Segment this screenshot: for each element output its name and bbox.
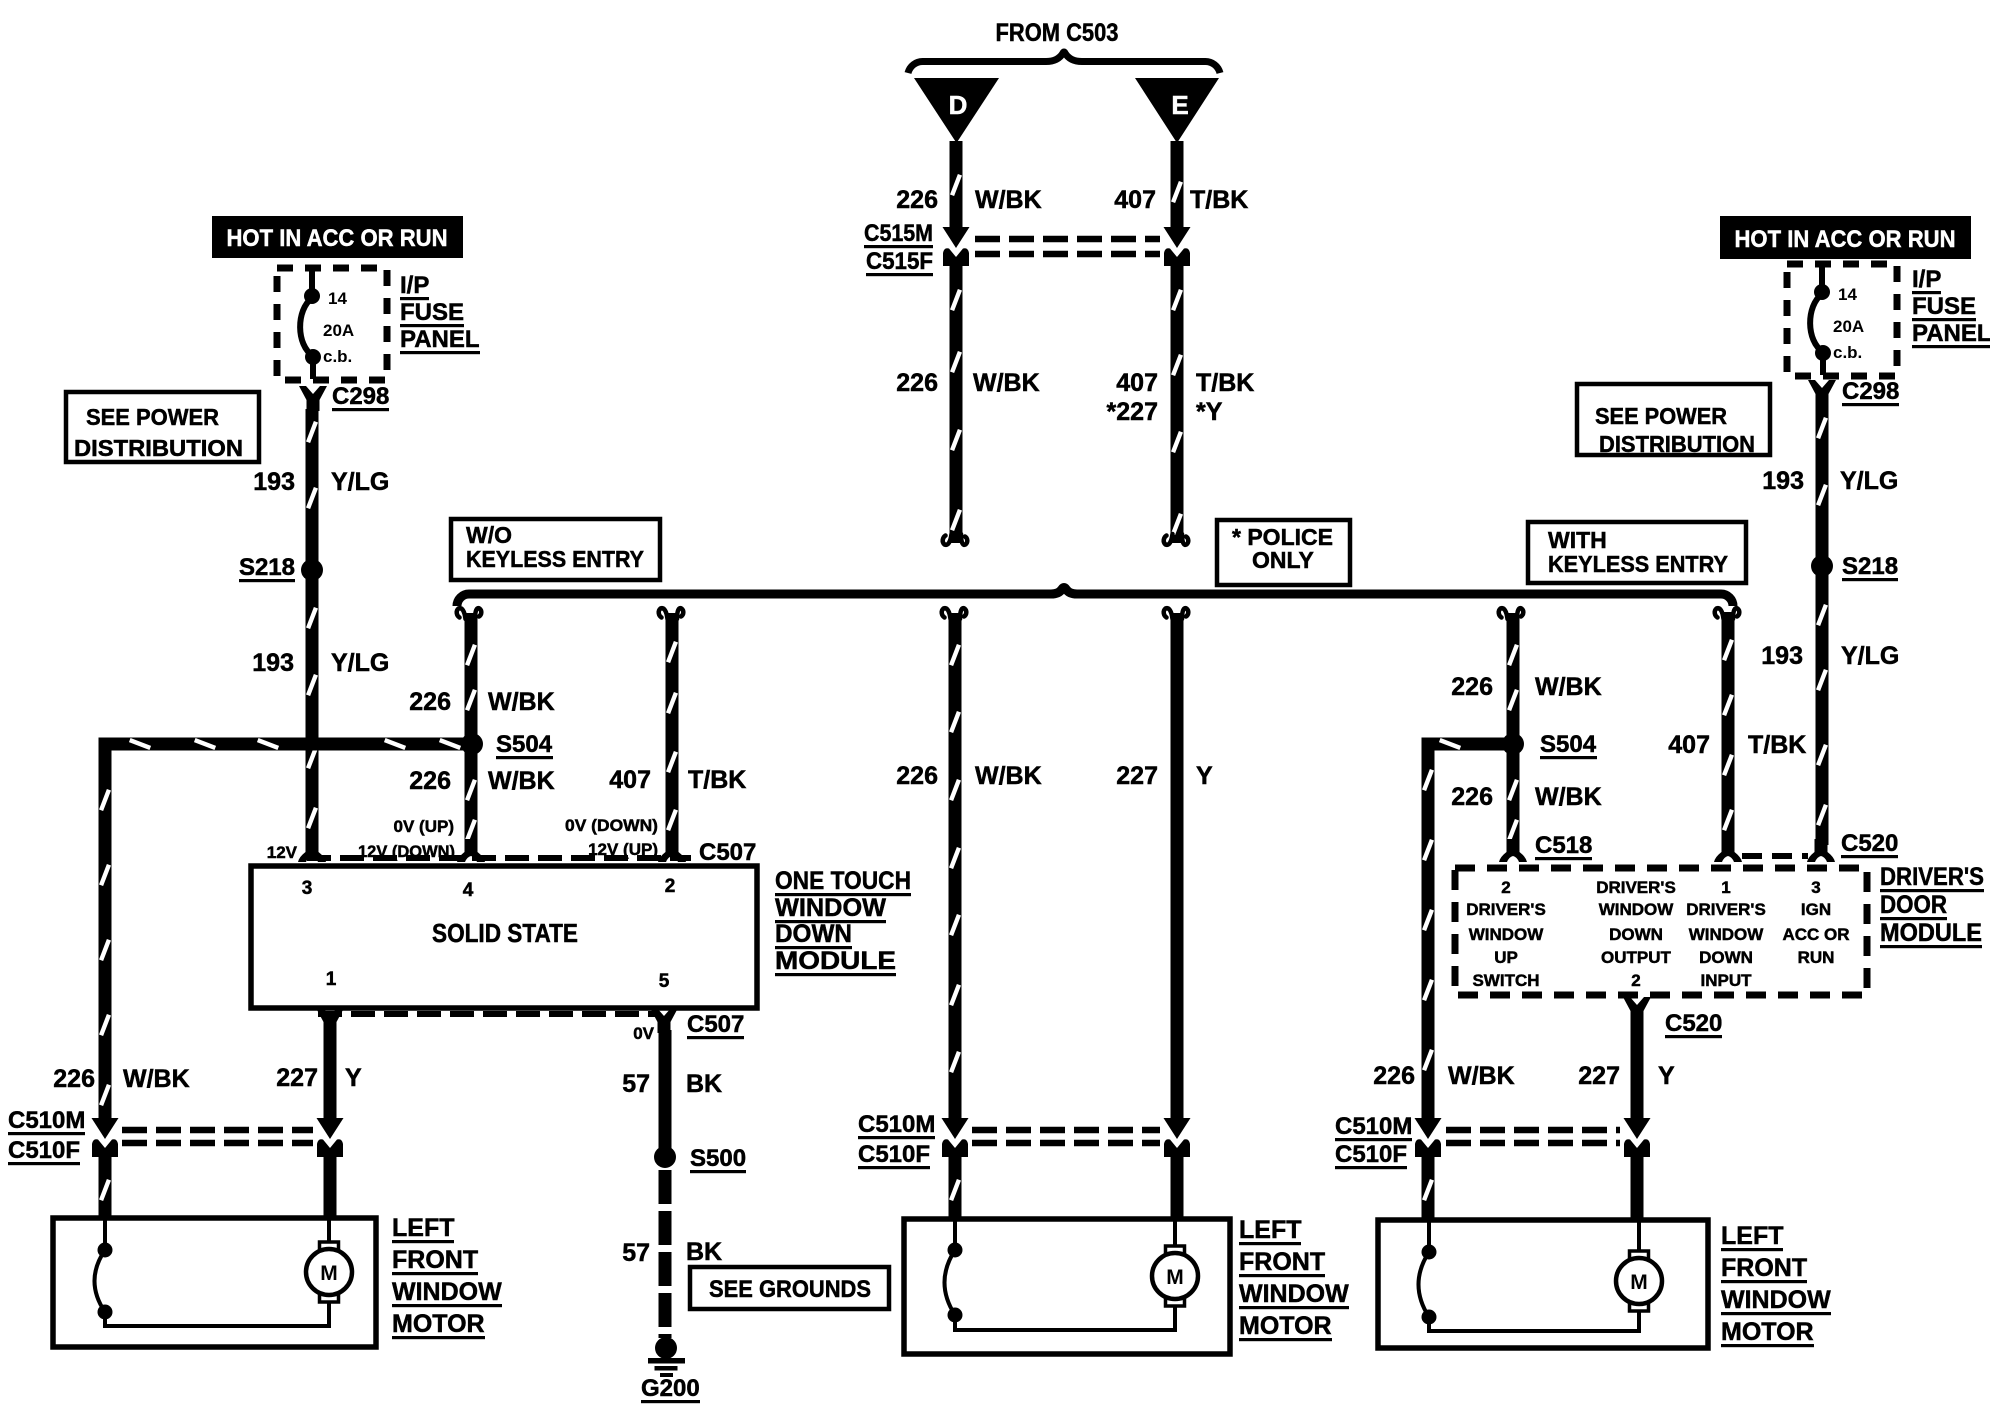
svg-text:WINDOW: WINDOW [1469, 925, 1545, 944]
connector C510 pin on wire 226 right [1415, 1118, 1442, 1157]
connector triangle D [914, 78, 999, 143]
svg-text:FUSE: FUSE [1912, 293, 1976, 320]
connector triangle E [1135, 78, 1219, 143]
svg-text:WINDOW: WINDOW [1599, 900, 1675, 919]
svg-text:2: 2 [1631, 971, 1640, 990]
svg-text:PANEL: PANEL [400, 326, 480, 353]
connector C510 pin on wire 226 center [942, 1118, 969, 1157]
connector C510 left dashed lines [122, 1127, 313, 1134]
svg-text:I/P: I/P [400, 272, 429, 299]
svg-text:DISTRIBUTION: DISTRIBUTION [74, 435, 243, 461]
wire 227 Y center to motor [1171, 613, 1184, 1121]
svg-text:0V: 0V [633, 1024, 654, 1043]
wire end feet at module pin 4 [457, 839, 485, 862]
svg-text:S504: S504 [1540, 731, 1597, 758]
wire end feet at C520 pin 1 [1714, 839, 1742, 862]
svg-text:3: 3 [302, 878, 313, 899]
svg-text:G200: G200 [641, 1375, 700, 1402]
svg-text:MODULE: MODULE [775, 947, 896, 975]
wire end feet at C520 pin 3 [1807, 839, 1835, 862]
connector C507 socket at module pin 1 [316, 1008, 344, 1033]
window limit switch inside motor box [1427, 1220, 1431, 1247]
wire 407 T/BK to module pin 2 [666, 613, 679, 846]
svg-text:226: 226 [1451, 783, 1493, 811]
svg-text:C515F: C515F [866, 248, 933, 275]
svg-text:C298: C298 [332, 383, 389, 410]
svg-text:DOWN: DOWN [775, 920, 852, 948]
svg-text:FRONT: FRONT [392, 1246, 478, 1274]
connector C510 pin on wire 227 right [1624, 1118, 1651, 1157]
svg-text:WINDOW: WINDOW [775, 894, 886, 922]
svg-text:HOT IN ACC OR RUN: HOT IN ACC OR RUN [1735, 226, 1956, 253]
svg-text:W/BK: W/BK [1448, 1062, 1515, 1090]
connector C298 left socket [299, 386, 327, 411]
circuit breaker 14 20A c.b. left I/P fuse panel [277, 268, 387, 380]
svg-text:S500: S500 [690, 1145, 746, 1172]
splice S218 right [1811, 555, 1833, 577]
wire 227 Y from module pin 1 [324, 1030, 337, 1121]
svg-text:C510M: C510M [1335, 1113, 1412, 1140]
wire 227 Y from module output [1631, 1020, 1644, 1121]
svg-text:Y/LG: Y/LG [1841, 642, 1899, 670]
wire end feet at module pin 3 [298, 839, 326, 862]
wire inside motor box from switch to motor [955, 1305, 1175, 1330]
svg-text:193: 193 [1761, 642, 1803, 670]
svg-text:DRIVER'S: DRIVER'S [1686, 900, 1766, 919]
connector C520 socket below module [1623, 997, 1651, 1022]
HOT IN ACC OR RUN banner left [212, 216, 463, 258]
svg-text:*Y: *Y [1196, 398, 1223, 426]
svg-text:MOTOR: MOTOR [1721, 1318, 1814, 1346]
svg-text:226: 226 [1373, 1062, 1415, 1090]
svg-text:S218: S218 [1842, 553, 1898, 580]
svg-text:DOWN: DOWN [1609, 925, 1663, 944]
wire 226 W/BK vertical run to right motor [1422, 738, 1435, 751]
svg-text:SEE GROUNDS: SEE GROUNDS [709, 1276, 871, 1303]
wire 226 W/BK horizontal run right [1427, 738, 1513, 751]
window limit switch inside motor box [953, 1219, 957, 1245]
box SEE POWER DISTRIBUTION right [1577, 384, 1770, 455]
svg-text:S504: S504 [496, 731, 553, 758]
one touch window down module box SOLID STATE [251, 866, 757, 1008]
box SEE GROUNDS [690, 1267, 889, 1309]
svg-text:C520: C520 [1841, 830, 1898, 857]
svg-text:C510M: C510M [8, 1107, 85, 1134]
svg-text:OUTPUT: OUTPUT [1601, 948, 1672, 967]
svg-text:D: D [949, 90, 968, 120]
wire 226 W/BK right to S504 and C518 [1507, 613, 1520, 846]
svg-text:T/BK: T/BK [1196, 369, 1254, 397]
svg-text:C510M: C510M [858, 1111, 935, 1138]
svg-text:MODULE: MODULE [1880, 919, 1982, 947]
svg-text:407: 407 [609, 766, 651, 794]
svg-text:12V: 12V [267, 843, 298, 862]
svg-text:193: 193 [1762, 467, 1804, 495]
svg-text:Y/LG: Y/LG [331, 468, 389, 496]
svg-text:227: 227 [276, 1064, 318, 1092]
motor M [306, 1242, 352, 1302]
motor M [1152, 1246, 1198, 1306]
svg-text:SOLID STATE: SOLID STATE [432, 918, 578, 948]
connector C507 socket at module pin 5 [650, 1008, 678, 1033]
connector C520 dashed line [1742, 853, 1808, 859]
svg-text:DRIVER'S: DRIVER'S [1466, 900, 1546, 919]
svg-text:W/BK: W/BK [973, 369, 1040, 397]
svg-text:SEE POWER: SEE POWER [1595, 403, 1727, 429]
svg-text:DOWN: DOWN [1699, 948, 1753, 967]
svg-text:407: 407 [1668, 731, 1710, 759]
connector C515 pin symbol on wire 226 [943, 227, 970, 266]
svg-text:WINDOW: WINDOW [1239, 1280, 1349, 1308]
svg-text:Y: Y [345, 1064, 362, 1092]
wire inside motor box from switch to motor [105, 1301, 329, 1326]
svg-text:W/BK: W/BK [1535, 673, 1602, 701]
svg-text:W/BK: W/BK [1535, 783, 1602, 811]
svg-text:WINDOW: WINDOW [392, 1278, 502, 1306]
svg-text:1: 1 [1721, 878, 1730, 897]
connector C510 right dashed lines [1446, 1127, 1620, 1134]
svg-text:WINDOW: WINDOW [1689, 925, 1765, 944]
svg-text:WITH: WITH [1548, 527, 1607, 553]
svg-text:227: 227 [1578, 1062, 1620, 1090]
wire 226 W/BK to S504 and module pin 4 [465, 613, 478, 846]
brace from C503 [908, 52, 1220, 73]
svg-text:S218: S218 [239, 554, 295, 581]
pigtail hook wire 407 to module pin 2 [659, 608, 684, 619]
svg-text:C298: C298 [1842, 378, 1899, 405]
svg-text:UP: UP [1494, 948, 1518, 967]
wire 407 T/BK right to C520 pin 1 [1722, 612, 1735, 846]
left front window motor box left [53, 1218, 376, 1347]
svg-text:RUN: RUN [1798, 948, 1835, 967]
svg-text:2: 2 [1501, 878, 1510, 897]
wire 407 T/BK from triangle E [1171, 141, 1184, 229]
svg-text:C520: C520 [1665, 1010, 1722, 1037]
wire 226 W/BK horizontal run to S504 left [105, 738, 472, 751]
box W/O KEYLESS ENTRY [451, 519, 660, 580]
svg-text:226: 226 [409, 688, 451, 716]
svg-text:226: 226 [896, 186, 938, 214]
svg-text:IGN: IGN [1801, 900, 1831, 919]
wire 193 Y/LG right [1816, 403, 1829, 845]
svg-text:2: 2 [665, 876, 676, 897]
svg-text:FROM C503: FROM C503 [996, 19, 1119, 47]
connector C298 right socket [1808, 380, 1836, 405]
svg-text:MOTOR: MOTOR [392, 1310, 485, 1338]
window limit switch inside motor box [103, 1218, 107, 1245]
svg-text:C510F: C510F [8, 1137, 80, 1164]
svg-text:FUSE: FUSE [400, 299, 464, 326]
pigtail hook wire 407 right [1715, 608, 1740, 619]
svg-text:T/BK: T/BK [1748, 731, 1806, 759]
svg-text:W/BK: W/BK [975, 186, 1042, 214]
svg-text:W/BK: W/BK [488, 688, 555, 716]
svg-text:226: 226 [896, 369, 938, 397]
connector C510 pin on wire 227 left [317, 1118, 344, 1157]
svg-text:T/BK: T/BK [688, 766, 746, 794]
svg-text:DRIVER'S: DRIVER'S [1596, 878, 1676, 897]
svg-text:ONLY: ONLY [1252, 547, 1314, 573]
svg-text:ONE TOUCH: ONE TOUCH [775, 867, 911, 895]
svg-text:226: 226 [896, 762, 938, 790]
wire 226 W/BK vertical run to left motor [99, 738, 112, 751]
svg-text:W/BK: W/BK [488, 767, 555, 795]
svg-text:KEYLESS ENTRY: KEYLESS ENTRY [466, 546, 644, 572]
svg-text:407: 407 [1116, 369, 1158, 397]
svg-text:BK: BK [686, 1070, 722, 1098]
svg-text:DISTRIBUTION: DISTRIBUTION [1599, 431, 1755, 457]
svg-text:*227: *227 [1107, 398, 1158, 426]
svg-text:C515M: C515M [864, 220, 933, 247]
ground G200 [648, 1337, 685, 1377]
connector C515 pin symbol on wire 407 [1164, 227, 1191, 266]
circuit breaker 14 20A c.b. right I/P fuse panel [1787, 264, 1897, 376]
svg-text:W/O: W/O [466, 522, 512, 548]
connector C510 center dashed lines [972, 1127, 1160, 1134]
svg-text:I/P: I/P [1912, 266, 1941, 293]
svg-text:0V (DOWN): 0V (DOWN) [565, 816, 658, 835]
svg-text:Y: Y [1658, 1062, 1675, 1090]
svg-text:PANEL: PANEL [1912, 320, 1990, 347]
svg-text:ACC OR: ACC OR [1782, 925, 1849, 944]
connector C510 pin on wire 226 left [92, 1118, 119, 1157]
splice S218 left [301, 559, 323, 581]
svg-text:KEYLESS ENTRY: KEYLESS ENTRY [1548, 551, 1728, 577]
motor M [1616, 1251, 1662, 1311]
connector C507 dashed line above module [307, 855, 691, 861]
box WITH KEYLESS ENTRY [1528, 522, 1746, 583]
HOT IN ACC OR RUN banner right [1720, 216, 1971, 259]
pigtail hook wire 226 to module pin 4 [457, 608, 482, 619]
svg-text:INPUT: INPUT [1701, 971, 1753, 990]
svg-text:1: 1 [326, 969, 337, 990]
connector C507 dashed line below module [318, 1011, 658, 1017]
wire 226 W/BK center to motor [949, 613, 962, 1121]
splice S500 [654, 1146, 676, 1168]
svg-text:227: 227 [1116, 762, 1158, 790]
svg-text:226: 226 [409, 767, 451, 795]
svg-text:57: 57 [622, 1070, 650, 1098]
svg-text:0V (UP): 0V (UP) [394, 817, 454, 836]
svg-text:C507: C507 [699, 839, 756, 866]
svg-text:HOT IN ACC OR RUN: HOT IN ACC OR RUN [227, 225, 448, 252]
left front window motor box right [1378, 1220, 1708, 1348]
svg-text:W/BK: W/BK [123, 1065, 190, 1093]
svg-text:T/BK: T/BK [1190, 186, 1248, 214]
svg-text:C507: C507 [687, 1011, 744, 1038]
wire end feet at C518 [1499, 839, 1527, 862]
connector C515 dashed lines [975, 236, 1160, 243]
svg-text:E: E [1171, 90, 1188, 120]
wire inside motor box from switch to motor [1429, 1310, 1639, 1331]
svg-text:LEFT: LEFT [392, 1214, 455, 1242]
svg-text:W/BK: W/BK [975, 762, 1042, 790]
svg-text:4: 4 [463, 880, 474, 901]
splice S504 left [461, 733, 483, 755]
pigtail hook wire 226 right [1499, 608, 1524, 619]
left front window motor box center [904, 1219, 1230, 1354]
svg-text:226: 226 [53, 1065, 95, 1093]
svg-text:DOOR: DOOR [1880, 891, 1947, 919]
wire 193 Y/LG left [306, 409, 319, 845]
svg-text:SWITCH: SWITCH [1472, 971, 1539, 990]
svg-text:LEFT: LEFT [1721, 1222, 1784, 1250]
svg-text:C518: C518 [1535, 832, 1592, 859]
bus distribution brace [457, 588, 1733, 607]
svg-text:FRONT: FRONT [1239, 1248, 1325, 1276]
svg-text:3: 3 [1811, 878, 1820, 897]
drivers door module dashed box [1455, 868, 1867, 995]
connector C510 pin on wire 227 center [1164, 1118, 1191, 1157]
pigtail end of wire 226 above bus [943, 534, 968, 545]
wire end feet at module pin 2 [658, 839, 686, 862]
splice S504 right [1502, 733, 1524, 755]
svg-text:MOTOR: MOTOR [1239, 1312, 1332, 1340]
wire 57 BK dashed to ground [659, 1170, 672, 1338]
svg-text:FRONT: FRONT [1721, 1254, 1807, 1282]
svg-text:SEE POWER: SEE POWER [86, 404, 219, 430]
wire 57 BK from module pin 5 [659, 1030, 672, 1157]
svg-text:Y: Y [1196, 762, 1213, 790]
svg-text:WINDOW: WINDOW [1721, 1286, 1831, 1314]
svg-text:Y/LG: Y/LG [331, 649, 389, 677]
svg-text:5: 5 [659, 971, 670, 992]
svg-text:LEFT: LEFT [1239, 1216, 1302, 1244]
pigtail end of wire 407 above bus [1164, 534, 1189, 545]
svg-text:193: 193 [252, 649, 294, 677]
svg-text:BK: BK [686, 1238, 722, 1266]
svg-text:193: 193 [253, 468, 295, 496]
svg-text:407: 407 [1114, 186, 1156, 214]
box POLICE ONLY [1217, 520, 1350, 585]
svg-text:C510F: C510F [1335, 1141, 1407, 1168]
wire 226 W/BK from triangle D [950, 141, 963, 229]
svg-text:DRIVER'S: DRIVER'S [1880, 863, 1984, 891]
box SEE POWER DISTRIBUTION left [66, 392, 259, 462]
svg-text:226: 226 [1451, 673, 1493, 701]
pigtail hook wire 227 center [1164, 608, 1189, 619]
svg-text:C510F: C510F [858, 1141, 930, 1168]
pigtail hook wire 226 center [942, 608, 967, 619]
svg-text:Y/LG: Y/LG [1840, 467, 1898, 495]
svg-text:57: 57 [622, 1239, 650, 1267]
